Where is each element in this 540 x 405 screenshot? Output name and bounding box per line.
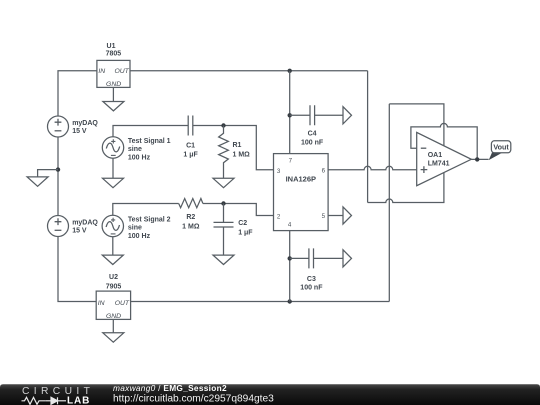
svg-text:R1: R1: [233, 142, 242, 149]
svg-text:maxwang0 / EMG_Session2: maxwang0 / EMG_Session2: [113, 383, 227, 393]
node pin4 junction: [288, 299, 292, 303]
svg-text:100 nF: 100 nF: [301, 139, 324, 146]
svg-text:C4: C4: [308, 131, 317, 138]
ground (U1 GND): [103, 87, 124, 111]
logo resistor squiggle: [22, 397, 46, 404]
svg-text:1 MΩ: 1 MΩ: [182, 223, 200, 230]
svg-text:1 MΩ: 1 MΩ: [233, 151, 251, 158]
ground (R1): [213, 178, 234, 187]
node C4 tap: [288, 113, 292, 117]
wire C4 branch: [290, 114, 343, 116]
svg-text:R2: R2: [186, 214, 195, 221]
svg-text:LAB: LAB: [67, 395, 90, 405]
svg-text:Test Signal 1: Test Signal 1: [128, 138, 171, 145]
wire pin5 stub: [328, 215, 343, 217]
svg-text:15 V: 15 V: [72, 228, 87, 235]
svg-text:INA126P: INA126P: [286, 175, 316, 184]
wire U1 IN to V1: [58, 71, 97, 116]
ground (U2 GND): [103, 319, 124, 342]
logo diode: [46, 397, 66, 404]
wire VS1 to C1: [113, 126, 188, 137]
svg-text:15 V: 15 V: [72, 128, 87, 135]
svg-text:IN: IN: [98, 300, 105, 307]
wire U2 OUT bottom rail: [131, 301, 390, 303]
terminal flag at pin5: [343, 207, 352, 224]
wire feedback loop with hop: [411, 123, 477, 159]
svg-text:2: 2: [277, 213, 281, 220]
svg-text:Vout: Vout: [493, 143, 509, 152]
svg-text:7805: 7805: [106, 50, 122, 57]
wire pin7 vertical: [289, 71, 291, 154]
svg-text:sine: sine: [128, 225, 142, 232]
svg-text:100 nF: 100 nF: [300, 285, 323, 292]
node R1 tap: [221, 123, 225, 127]
wire rail A (7805 output down): [367, 71, 369, 203]
wire op-amp V- supply run with hop: [368, 173, 444, 203]
svg-text:GND: GND: [106, 81, 121, 88]
wire op-amp V+ supply run: [389, 104, 444, 146]
svg-text:myDAQ: myDAQ: [72, 220, 98, 227]
svg-text:U2: U2: [109, 274, 118, 281]
svg-text:100 Hz: 100 Hz: [128, 155, 151, 162]
capacitor C2 1 uF: [214, 204, 254, 256]
capacitor C1 1 uF: [183, 116, 198, 159]
svg-text:sine: sine: [128, 146, 142, 153]
wire ground branch: [38, 170, 58, 177]
svg-text:OA1: OA1: [428, 152, 443, 159]
node C2 tap: [221, 201, 225, 205]
svg-text:OUT: OUT: [115, 300, 130, 307]
svg-text:5: 5: [322, 213, 326, 220]
ground (VS1): [103, 158, 124, 188]
svg-text:1 μF: 1 μF: [238, 229, 253, 236]
wire C1 to pin3: [193, 126, 274, 170]
svg-text:OUT: OUT: [114, 68, 129, 75]
svg-text:7: 7: [289, 157, 293, 164]
resistor R2 1 MOhm: [179, 199, 203, 231]
capacitor C4 100 nF: [301, 105, 324, 146]
resistor R1 1 MOhm: [219, 126, 251, 179]
wire V2 to U2 IN: [58, 237, 96, 302]
svg-text:3: 3: [277, 168, 281, 175]
svg-text:http://circuitlab.com/c2957q89: http://circuitlab.com/c2957q894gte3: [113, 394, 274, 405]
flag Vout: [489, 141, 511, 160]
svg-text:LM741: LM741: [428, 161, 450, 168]
node C3 tap: [288, 256, 292, 260]
voltage source VS1 Test Signal 1: [102, 137, 170, 162]
node top rail / pin7 junction: [288, 69, 292, 73]
wire C3 branch: [290, 257, 343, 259]
wire pin6 to op-amp + input with hops: [328, 166, 417, 169]
svg-text:U1: U1: [107, 43, 116, 50]
svg-text:Test Signal 2: Test Signal 2: [128, 216, 171, 223]
svg-text:myDAQ: myDAQ: [72, 120, 98, 127]
voltage regulator U2 7905: [96, 274, 130, 320]
instrumentation amp INA126P: [274, 154, 329, 231]
svg-text:1 μF: 1 μF: [183, 151, 198, 158]
node ground tap: [56, 167, 60, 171]
wire V1 to V2: [57, 137, 59, 216]
svg-text:C1: C1: [186, 142, 195, 149]
wire pin4 vertical: [289, 231, 291, 302]
svg-text:GND: GND: [106, 313, 121, 320]
op-amp OA1 LM741: [417, 132, 472, 185]
footer bar: [0, 384, 540, 405]
voltage source V1 myDAQ 15 V: [48, 116, 99, 137]
svg-text:C2: C2: [238, 220, 247, 227]
capacitor C3 100 nF: [300, 248, 323, 291]
svg-text:IN: IN: [98, 68, 105, 75]
wire op-amp output: [471, 158, 488, 160]
svg-text:6: 6: [322, 168, 326, 175]
wire rail B (7905 output up): [388, 104, 390, 302]
ground (C2): [213, 255, 234, 264]
svg-text:C3: C3: [307, 276, 316, 283]
svg-text:7905: 7905: [106, 284, 122, 291]
terminal flag at C4: [343, 107, 352, 124]
ground (left rail): [27, 177, 48, 186]
svg-text:100 Hz: 100 Hz: [128, 233, 151, 240]
svg-text:4: 4: [288, 222, 292, 229]
ground (VS2): [102, 237, 123, 265]
wire R2 to pin2: [203, 204, 274, 216]
terminal flag at C3: [343, 250, 352, 267]
wire VS2 to R2: [113, 204, 179, 216]
wire U1 OUT top rail: [130, 70, 368, 72]
voltage source V2 myDAQ 15 V: [48, 216, 99, 237]
node output junction: [475, 157, 479, 161]
voltage regulator U1 7805: [97, 43, 130, 88]
voltage source VS2 Test Signal 2: [102, 215, 171, 240]
